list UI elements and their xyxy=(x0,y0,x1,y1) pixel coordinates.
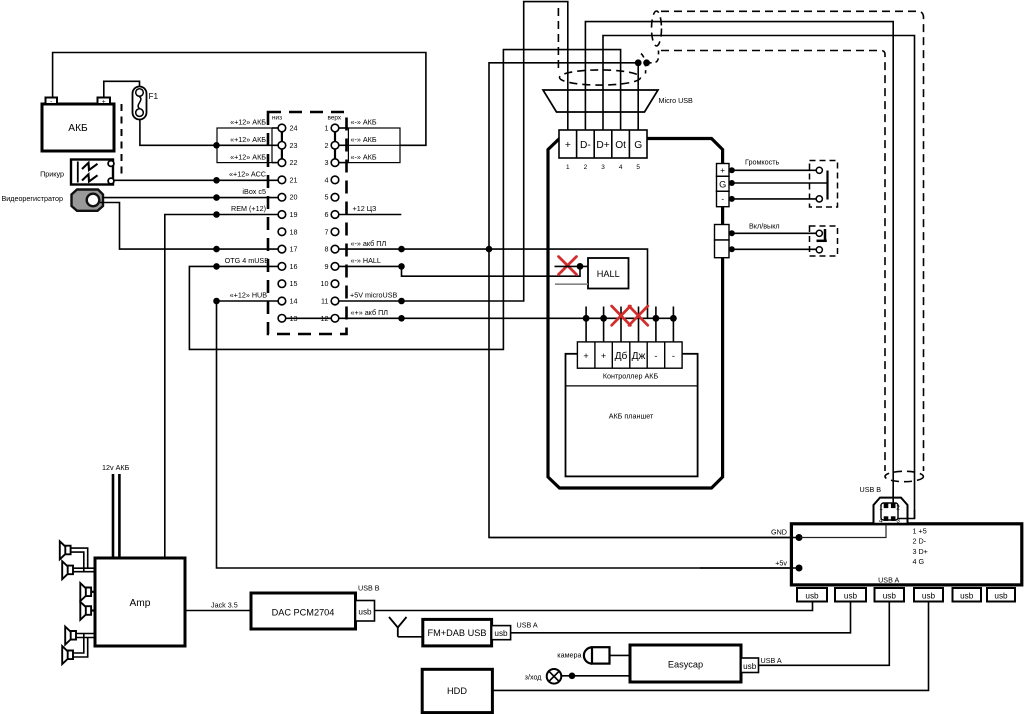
tablet outline xyxy=(548,139,723,489)
svg-text:usb: usb xyxy=(743,662,757,671)
svg-text:13: 13 xyxy=(290,314,298,323)
svg-text:F1: F1 xyxy=(149,92,159,101)
svg-text:USB B: USB B xyxy=(358,584,380,593)
svg-text:+5v: +5v xyxy=(775,559,787,568)
svg-text:«+12» АКБ: «+12» АКБ xyxy=(230,152,266,161)
wire power 1 xyxy=(732,232,816,234)
wire volume - xyxy=(732,198,816,200)
battery АКБ xyxy=(42,98,114,152)
svg-text:-: - xyxy=(672,351,675,361)
wire FM+DAB to hub port 2 xyxy=(511,602,851,633)
wire DVR to pin 20 (iBox c5) xyxy=(103,197,278,199)
svg-text:2 D-: 2 D- xyxy=(913,537,927,546)
svg-text:верх: верх xyxy=(328,115,342,122)
volume switch contacts xyxy=(816,167,822,173)
svg-text:17: 17 xyxy=(290,245,298,254)
USB B connector xyxy=(874,498,908,525)
svg-text:+: + xyxy=(720,166,725,175)
svg-text:usb: usb xyxy=(358,608,372,617)
speaker RL xyxy=(65,627,95,645)
wire +12 ЦЗ pin 6 xyxy=(339,214,401,216)
svg-text:«-» HALL: «-» HALL xyxy=(351,256,381,265)
svg-text:21: 21 xyxy=(290,175,298,184)
wire «-» HALL pin 9 xyxy=(339,266,580,276)
svg-text:12: 12 xyxy=(321,314,329,323)
wire D+ into USB B pin 3 (over connector) xyxy=(898,510,915,519)
svg-text:«-» АКБ: «-» АКБ xyxy=(351,152,377,161)
svg-text:+: + xyxy=(601,351,606,361)
reverse lamp з/ход xyxy=(525,669,562,684)
svg-text:5: 5 xyxy=(325,193,329,202)
battery controller pin wires xyxy=(586,307,673,342)
node pin12 pigtail xyxy=(398,315,405,322)
svg-text:+: + xyxy=(583,351,588,361)
red X cut mark HALL wire xyxy=(559,257,577,275)
node pin11 pigtail xyxy=(398,298,405,305)
svg-text:Easycap: Easycap xyxy=(668,660,703,670)
svg-text:FM+DAB USB: FM+DAB USB xyxy=(428,628,487,638)
svg-text:usb: usb xyxy=(994,592,1008,601)
DAC PCM2704 xyxy=(251,593,356,629)
svg-text:D+: D+ xyxy=(596,140,609,151)
DAC usb plug xyxy=(356,584,380,622)
svg-text:usb: usb xyxy=(844,592,858,601)
svg-text:Micro USB: Micro USB xyxy=(659,96,694,105)
node pin9 pigtail xyxy=(398,263,405,270)
svg-text:14: 14 xyxy=(290,297,298,306)
wire fuse to connector pin 23 («+12» АКБ) xyxy=(140,120,278,146)
wire OTG 4 mUSB pin 16 loop to micro USB pin Ot xyxy=(189,50,620,350)
svg-text:-: - xyxy=(721,195,724,204)
DVR Видеорегистратор xyxy=(1,190,103,211)
node junction iBox xyxy=(213,194,220,201)
connector strap pins 1-2-3 xyxy=(334,124,336,168)
wire «-» акб ПЛ pin 8 to battery controller minus xyxy=(339,249,648,318)
svg-text:Amp: Amp xyxy=(130,598,151,609)
svg-text:Видеорегистратор: Видеорегистратор xyxy=(1,194,63,203)
power switch dashed box xyxy=(810,226,838,256)
red X cut mark Дб xyxy=(612,306,631,325)
svg-text:АКБ планшет: АКБ планшет xyxy=(609,411,654,420)
speaker RR xyxy=(62,634,88,665)
dashed wire battery to cigarette lighter xyxy=(121,104,123,174)
svg-text:АКБ: АКБ xyxy=(68,123,88,134)
wire з/ход to Easycap xyxy=(561,675,630,677)
svg-text:USB A: USB A xyxy=(878,576,899,585)
svg-text:5: 5 xyxy=(636,164,640,171)
connector pins left column 24..13 xyxy=(278,124,286,322)
svg-text:Jack 3.5: Jack 3.5 xyxy=(211,601,238,610)
connector dashed housing xyxy=(268,112,347,334)
svg-text:USB B: USB B xyxy=(860,485,882,494)
connector pins right column 1..12 xyxy=(331,124,339,322)
volume switch common bar xyxy=(826,171,828,200)
svg-text:«-» АКБ: «-» АКБ xyxy=(351,135,377,144)
wire camera to Easycap xyxy=(610,654,631,656)
svg-text:+5V microUSB: +5V microUSB xyxy=(350,291,398,300)
node pin8 pigtail xyxy=(398,246,405,253)
gray wire HALL lower xyxy=(555,283,588,285)
FM+DAB usb plug xyxy=(492,621,538,640)
svg-text:18: 18 xyxy=(290,227,298,236)
svg-text:HDD: HDD xyxy=(447,686,467,696)
svg-text:4: 4 xyxy=(619,164,623,171)
svg-text:OTG 4 mUSB: OTG 4 mUSB xyxy=(225,256,270,265)
svg-text:1: 1 xyxy=(566,164,570,171)
HALL sensor box xyxy=(588,258,629,289)
svg-text:19: 19 xyxy=(290,210,298,219)
speaker center 1 xyxy=(80,583,95,601)
svg-text:Ot: Ot xyxy=(615,140,626,151)
node junction REM xyxy=(213,211,220,218)
node GND junction xyxy=(486,246,493,253)
speaker FL xyxy=(60,541,88,571)
re-draw +5v wire end inside hub xyxy=(700,567,799,569)
connector strap pins 24-23-22 xyxy=(281,124,283,168)
wire Прикур to pin 21 («+12» ACC) xyxy=(114,179,278,181)
cigarette lighter Прикур xyxy=(40,160,114,185)
svg-text:низ: низ xyxy=(272,115,282,122)
svg-text:2: 2 xyxy=(325,141,329,150)
svg-text:Вкл/выкл: Вкл/выкл xyxy=(749,222,780,231)
svg-text:камера: камера xyxy=(557,651,581,660)
node +5v at hub xyxy=(796,565,803,572)
svg-text:2: 2 xyxy=(584,164,588,171)
fuse F1 xyxy=(133,87,159,120)
battery controller pin header xyxy=(577,342,682,368)
svg-text:«-» АКБ: «-» АКБ xyxy=(351,118,377,127)
antenna xyxy=(389,617,407,637)
hard drive HDD xyxy=(422,669,492,712)
hub internal GND trace to USB B pin 4 xyxy=(800,522,886,538)
svg-text:23: 23 xyxy=(290,141,298,150)
speaker FR xyxy=(62,561,95,579)
node з/ход xyxy=(569,673,576,680)
net labels left column xyxy=(225,118,270,300)
wire 12v supply pair to Amp xyxy=(113,474,119,558)
pin numbers right 1..12 xyxy=(321,124,329,323)
node battery - pins xyxy=(653,315,660,322)
power button header xyxy=(715,225,730,258)
label box «+12» АКБ left xyxy=(217,128,278,163)
svg-text:20: 20 xyxy=(290,193,298,202)
dashed cable sheath at micro USB xyxy=(558,8,658,85)
svg-text:+12 ЦЗ: +12 ЦЗ xyxy=(353,204,377,213)
node battery + pins xyxy=(583,315,590,322)
svg-text:D-: D- xyxy=(580,140,591,151)
USB hub xyxy=(791,524,1021,585)
amplifier Amp xyxy=(95,558,185,646)
svg-text:G: G xyxy=(634,140,642,151)
svg-text:«+» акб ПЛ: «+» акб ПЛ xyxy=(351,308,389,317)
net labels right column xyxy=(350,118,398,317)
svg-text:USB A: USB A xyxy=(517,621,538,630)
dashed cable loop to hub USB B xyxy=(652,11,924,482)
svg-text:1: 1 xyxy=(325,124,329,133)
micro USB trapezoid xyxy=(543,90,658,112)
wire «+12» HUB pin 14 to hub +5v xyxy=(217,301,800,568)
node HALL junction xyxy=(577,263,584,270)
svg-text:7: 7 xyxy=(325,227,329,236)
svg-text:DAC PCM2704: DAC PCM2704 xyxy=(272,608,335,618)
wire DVR ground to pin 17 xyxy=(100,203,278,250)
node power pins xyxy=(729,230,735,236)
wire volume + xyxy=(732,169,816,171)
wire volume G xyxy=(732,182,828,184)
svg-text:24: 24 xyxy=(290,124,298,133)
label box «-» АКБ right xyxy=(339,128,400,163)
pin numbers left 24..13 xyxy=(290,124,298,323)
svg-text:2: 2 xyxy=(896,505,900,512)
node volume pins xyxy=(729,167,735,173)
svg-text:3 D+: 3 D+ xyxy=(913,547,928,556)
volume switch dashed box xyxy=(810,161,838,208)
svg-text:12v АКБ: 12v АКБ xyxy=(102,463,130,472)
wire micro USB G to hub GND xyxy=(489,63,799,538)
svg-text:3: 3 xyxy=(325,158,329,167)
svg-text:Контроллер АКБ: Контроллер АКБ xyxy=(603,372,659,381)
battery pack АКБ планшет xyxy=(566,354,698,477)
svg-text:9: 9 xyxy=(325,262,329,271)
node junction OTG xyxy=(213,263,220,270)
wire power 2 xyxy=(732,248,816,250)
svg-text:Громкость: Громкость xyxy=(745,158,780,167)
svg-text:10: 10 xyxy=(321,279,329,288)
svg-text:1 +5: 1 +5 xyxy=(913,527,927,536)
wire +5V microUSB pin 11 to micro USB pin + xyxy=(339,2,568,301)
micro USB pin header xyxy=(559,130,647,158)
svg-text:8: 8 xyxy=(325,245,329,254)
svg-text:+: + xyxy=(102,99,106,106)
wire «+» акб ПЛ pin 13/12 to battery controller plus xyxy=(282,317,674,319)
hub pinout text xyxy=(913,527,928,567)
svg-text:Прикур: Прикур xyxy=(40,170,64,179)
Easycap usb plug xyxy=(741,656,782,673)
re-draw GND wire end inside hub xyxy=(489,537,799,539)
wire antenna to FM+DAB xyxy=(398,636,423,638)
svg-text:4: 4 xyxy=(879,518,883,525)
node junction fuse wire / label box xyxy=(213,142,220,149)
svg-text:usb: usb xyxy=(805,592,819,601)
svg-text:15: 15 xyxy=(290,279,298,288)
node junction ACC xyxy=(213,177,220,184)
svg-text:«+12» АКБ: «+12» АКБ xyxy=(230,135,266,144)
svg-text:usb: usb xyxy=(883,592,897,601)
red X cut mark Дж xyxy=(629,306,648,325)
svg-text:GND: GND xyxy=(771,528,787,537)
node junction HUB xyxy=(213,298,220,305)
svg-text:G: G xyxy=(719,180,726,190)
wire Jack 3.5 Amp to DAC xyxy=(185,610,251,612)
wire REM (+12) pin 19 to Amp xyxy=(165,215,278,559)
svg-text:Дб: Дб xyxy=(615,350,628,362)
node shield tap xyxy=(643,59,650,66)
svg-text:22: 22 xyxy=(290,158,298,167)
node G corner xyxy=(635,59,642,66)
wire micro USB D+ to hub USB B pin 3 xyxy=(603,36,915,519)
svg-text:-: - xyxy=(654,351,657,361)
wire Easycap to hub port 3 xyxy=(759,602,890,666)
svg-text:usb: usb xyxy=(960,592,974,601)
svg-text:iBox c5: iBox c5 xyxy=(242,187,266,196)
node GND at hub xyxy=(796,534,803,541)
micro USB pin numbers 1-5 xyxy=(566,164,640,171)
svg-text:USB A: USB A xyxy=(761,656,782,665)
svg-text:Дж: Дж xyxy=(632,351,646,362)
svg-text:REM (+12): REM (+12) xyxy=(231,204,266,213)
hub USB A ports xyxy=(797,588,1015,602)
camera камера xyxy=(557,647,609,663)
svg-text:4 G: 4 G xyxy=(913,557,925,566)
svg-text:6: 6 xyxy=(325,210,329,219)
node junction pin 17 xyxy=(213,246,220,253)
svg-text:3: 3 xyxy=(601,164,605,171)
cut stub HALL xyxy=(555,265,589,267)
FM+DAB USB receiver xyxy=(423,619,492,646)
svg-text:з/ход: з/ход xyxy=(525,673,543,682)
svg-text:+: + xyxy=(565,140,571,151)
svg-text:«+12» ACC: «+12» ACC xyxy=(229,170,266,179)
wire DAC to hub port 1 xyxy=(375,602,813,611)
svg-text:usb: usb xyxy=(922,592,936,601)
power switch contacts xyxy=(816,230,822,236)
wire D- into USB B pin 2 (over connector) xyxy=(892,490,894,506)
svg-text:HALL: HALL xyxy=(597,269,620,279)
svg-text:«+12» АКБ: «+12» АКБ xyxy=(230,118,266,127)
svg-text:11: 11 xyxy=(321,297,328,306)
volume button header +/G/- xyxy=(717,164,730,207)
svg-text:usb: usb xyxy=(494,629,508,638)
wire HDD to hub port 4 xyxy=(492,602,928,691)
svg-text:16: 16 xyxy=(290,262,298,271)
wire micro USB D- to hub USB B pin 2 xyxy=(585,22,893,503)
svg-text:4: 4 xyxy=(325,175,329,184)
power switch actuator xyxy=(817,229,827,241)
svg-text:-: - xyxy=(50,98,52,105)
speaker center 2 xyxy=(80,602,95,620)
svg-text:1: 1 xyxy=(879,505,883,512)
Easycap video capture xyxy=(630,645,741,682)
wire battery minus to «-» АКБ box (top loop) xyxy=(53,53,426,146)
wire battery plus to fuse F1 xyxy=(104,81,140,97)
svg-text:«+12» HUB: «+12» HUB xyxy=(230,291,268,300)
svg-text:«-» акб ПЛ: «-» акб ПЛ xyxy=(351,239,387,248)
